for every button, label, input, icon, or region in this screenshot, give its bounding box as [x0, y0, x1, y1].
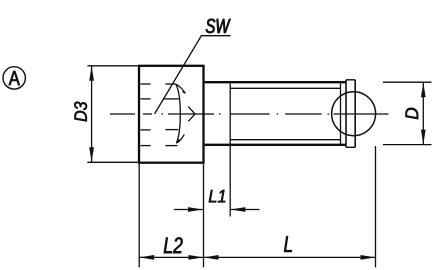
- D3 extension line top: [87, 65, 137, 67]
- thread end line: [340, 84, 342, 144]
- L1 label: [209, 190, 225, 202]
- shaft bottom edge: [205, 144, 346, 146]
- collar top edge: [346, 79, 355, 81]
- collar left edge: [345, 80, 347, 148]
- shaft top edge: [205, 81, 346, 83]
- extension line head right down: [203, 164, 205, 267]
- hex socket bottom edge line: [165, 145, 177, 147]
- D3 extension line bottom: [87, 161, 137, 163]
- D3 arrow down: [89, 147, 94, 162]
- D dimension line: [422, 82, 424, 144]
- D3 dimension line: [91, 66, 93, 163]
- centerline: [110, 113, 389, 115]
- head outline: [139, 66, 204, 163]
- extension line head left down: [138, 164, 140, 267]
- collar bottom edge: [346, 146, 355, 148]
- ball end circle: [332, 92, 376, 136]
- L1 dimension arrow left: [174, 209, 203, 211]
- thread start line: [229, 84, 231, 217]
- hex socket edge line bottom outer: [141, 145, 151, 147]
- L label: [284, 236, 292, 252]
- hex socket left contour curve: [176, 84, 181, 143]
- hex socket bottom right edge: [177, 134, 185, 143]
- D arrow down: [421, 130, 426, 145]
- L2 arrow right: [189, 255, 204, 260]
- hex socket edge line top inner: [141, 98, 151, 100]
- view direction chevron on axis: [188, 107, 195, 122]
- view label letter A: [9, 71, 20, 85]
- hex socket bottom edge arrowhead: [176, 139, 180, 144]
- D arrow up: [421, 82, 426, 97]
- thread minor line top: [230, 87, 340, 89]
- L dimension line: [204, 256, 376, 258]
- L2 arrow left: [139, 255, 154, 260]
- L2 dimension line: [139, 256, 203, 258]
- L arrow right: [361, 255, 376, 260]
- D3 arrow up: [89, 66, 94, 81]
- view label circle A: [3, 67, 25, 89]
- D label: [406, 108, 419, 119]
- hex socket top right edge: [176, 84, 185, 93]
- hex socket top edge line: [165, 83, 176, 85]
- D3 label: [74, 102, 87, 122]
- L2 label: [164, 237, 183, 253]
- hex socket inner line upper: [163, 98, 179, 100]
- L1 dimension arrow right: [230, 209, 259, 211]
- SW label: [206, 19, 231, 33]
- L arrow left: [204, 255, 219, 260]
- collar right edge: [354, 80, 356, 148]
- extension line ball right down: [375, 146, 377, 267]
- hex socket top edge arrowhead: [182, 90, 186, 94]
- hex socket inner line lower: [165, 129, 178, 131]
- D extension line top: [383, 81, 432, 83]
- hex socket edge line bottom inner: [141, 129, 151, 131]
- hex socket edge line top outer: [141, 83, 151, 85]
- SW leader line: [155, 36, 231, 114]
- D extension line bottom: [383, 144, 432, 146]
- thread minor line bottom: [230, 139, 340, 141]
